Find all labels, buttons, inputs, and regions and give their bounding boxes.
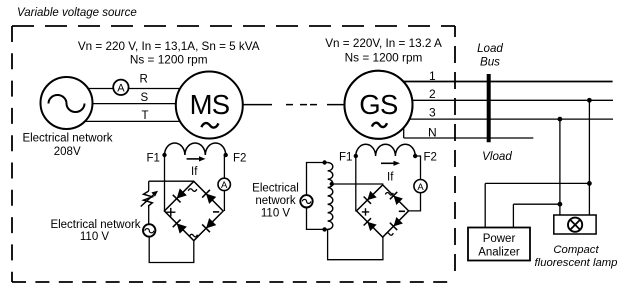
wire N neutral: vertical from GS then horizontal	[404, 124, 534, 138]
wire: horizontal to power analyzer left input	[485, 182, 589, 184]
svg-text:F2: F2	[424, 152, 437, 164]
svg-text:Load: Load	[477, 42, 503, 55]
wire F2 to ammeter (GS)	[415, 156, 420, 179]
diode D8 bottom-right (points to bottom ~)	[390, 217, 403, 230]
svg-text:1: 1	[429, 69, 436, 83]
variac / variable resistor	[141, 191, 158, 208]
wire tap to bridge top (GS)	[332, 183, 383, 186]
bridge2 ~ mark top	[385, 193, 393, 196]
node dot junction line3-drop / horizontal 2	[558, 202, 563, 207]
wire transformer bottom down to bottom rail to bridge bottom (GS)	[328, 229, 383, 259]
svg-text:If: If	[191, 166, 198, 178]
svg-text:Bus: Bus	[480, 56, 500, 69]
diode D3 bottom-left (points to +)	[173, 220, 187, 234]
AC source G2 (110V network left)	[143, 224, 155, 236]
svg-text:GS: GS	[359, 89, 398, 120]
ammeter A2 (field current MS)	[218, 178, 230, 191]
wire AC bottom to autotransformer bottom	[307, 207, 328, 229]
wire S phase	[66, 103, 209, 105]
wire: drop from line 2 to lamp	[588, 100, 590, 215]
dashed enclosure box: top edge	[12, 25, 455, 27]
power analyzer box	[468, 228, 530, 261]
wire: vertical into power analyzer input 1	[484, 183, 486, 227]
wire F2 to ammeter to bridge - vertex	[223, 155, 225, 211]
compact fluorescent lamp box	[554, 215, 596, 234]
svg-text:110 V: 110 V	[80, 231, 110, 243]
svg-text:A: A	[117, 83, 125, 95]
mechanical coupling dashed shaft	[243, 104, 345, 106]
rectifier bridge B1 (diamond)	[164, 181, 223, 240]
svg-text:Ns = 1200 rpm: Ns = 1200 rpm	[130, 53, 208, 67]
bridge2 - mark	[399, 210, 405, 212]
node dot on line 2	[587, 98, 592, 103]
bridge ~ mark top	[188, 189, 197, 192]
diode D1 top-left (points to +)	[173, 188, 187, 202]
node dot on line 3	[558, 117, 563, 122]
ammeter A3 (field current GS)	[414, 180, 427, 193]
wire T phase	[66, 120, 209, 122]
svg-text:Compact: Compact	[553, 244, 599, 256]
dashed enclosure box: left edge	[11, 26, 13, 282]
dashed enclosure box: right edge	[454, 26, 456, 280]
svg-text:Analizer: Analizer	[478, 247, 520, 259]
svg-text:F1: F1	[339, 152, 352, 164]
motor MS	[176, 72, 243, 139]
svg-text:110 V: 110 V	[261, 207, 291, 219]
svg-text:network: network	[255, 195, 296, 207]
wire: drop from line 3 to lamp	[559, 119, 561, 215]
wire: horizontal to power analyzer input 2	[513, 203, 560, 205]
current arrow If	[187, 158, 201, 160]
wire variac to AC source	[148, 208, 150, 225]
diode D2 top-right (points to top ~)	[202, 190, 216, 204]
bridge ~ mark bottom	[190, 234, 198, 237]
svg-text:S: S	[141, 92, 149, 104]
svg-text:A: A	[221, 180, 228, 191]
svg-text:3: 3	[429, 106, 436, 120]
AC source G3 (110V network middle)	[300, 195, 312, 207]
wire F1 to bridge + vertex (GS)	[355, 156, 358, 211]
current arrow If (GS)	[381, 162, 396, 164]
svg-text:Electrical: Electrical	[252, 183, 299, 195]
generator GS	[345, 71, 413, 139]
svg-text:Electrical network: Electrical network	[50, 219, 140, 231]
bridge2 ~ mark bottom	[385, 233, 393, 236]
terminal dot F2	[224, 153, 228, 157]
node dot junction line2-drop / horizontal	[587, 181, 592, 186]
rectifier bridge B2 (diamond GS)	[357, 185, 409, 237]
diode D4 bottom-right (points to bottom ~)	[202, 218, 216, 232]
diode D5 top-left (points to +)	[364, 191, 377, 204]
svg-text:Vload: Vload	[482, 150, 512, 163]
bridge + mark	[166, 208, 175, 217]
terminal dot F1	[162, 153, 166, 157]
field winding L1 (3 humps)	[165, 143, 226, 155]
svg-text:fluorescent lamp: fluorescent lamp	[535, 257, 618, 269]
wire F1 to bridge + vertex	[164, 155, 166, 211]
wire R phase	[66, 88, 209, 90]
terminal dot transformer bottom	[322, 227, 326, 231]
svg-text:Electrical network: Electrical network	[22, 133, 112, 145]
svg-text:F1: F1	[147, 153, 160, 165]
autotransformer winding (7 humps, bulge right)	[328, 163, 333, 230]
svg-text:208V: 208V	[54, 146, 81, 158]
svg-text:Vn = 220V, In = 13.2 A: Vn = 220V, In = 13.2 A	[325, 37, 442, 50]
terminal dot F2 (GS)	[413, 154, 417, 158]
bridge - mark	[213, 211, 219, 213]
svg-text:F2: F2	[233, 153, 246, 165]
wire ammeter to bridge - vertex (GS)	[409, 193, 421, 211]
svg-text:2: 2	[429, 87, 436, 101]
svg-text:MS: MS	[190, 89, 230, 120]
svg-text:N: N	[428, 125, 437, 139]
tap dot	[330, 182, 334, 186]
terminal dot transformer top	[322, 160, 326, 164]
redraw GS circle fill over wires	[345, 71, 413, 139]
field winding L2 (3 humps)	[356, 144, 415, 156]
wire line 1 (GS output)	[385, 81, 613, 83]
load bus bar (thick)	[487, 74, 491, 142]
wire line 2 (GS output)	[385, 99, 613, 101]
wire AC feed to bridge top	[149, 180, 194, 182]
svg-text:R: R	[140, 74, 148, 86]
svg-text:Ns = 1200 rpm: Ns = 1200 rpm	[345, 51, 423, 65]
dashed enclosure box: bottom edge	[12, 281, 455, 283]
svg-text:Variable voltage source: Variable voltage source	[17, 7, 137, 19]
svg-text:If: If	[387, 172, 394, 184]
wire AC top to autotransformer top	[307, 163, 328, 196]
wire line 3 (GS output)	[385, 118, 613, 120]
wire variac branch vertical	[148, 181, 150, 191]
wire AC source bottom to bridge bottom	[149, 237, 194, 263]
diode D6 top-right (points to top ~)	[390, 192, 403, 205]
svg-text:T: T	[142, 110, 149, 122]
ammeter A1 on R phase	[113, 80, 128, 95]
AC source G1 (208V network)	[41, 77, 93, 129]
bridge2 + mark	[362, 208, 369, 215]
svg-text:A: A	[417, 182, 424, 193]
diode D7 bottom-left (points to +)	[364, 218, 377, 231]
svg-text:Vn = 220 V, In = 13,1A, Sn = 5: Vn = 220 V, In = 13,1A, Sn = 5 kVA	[78, 40, 260, 53]
svg-text:Power: Power	[483, 233, 516, 245]
terminal dot F1 (GS)	[354, 154, 358, 158]
wire: vertical into power analyzer input 2	[512, 204, 514, 227]
